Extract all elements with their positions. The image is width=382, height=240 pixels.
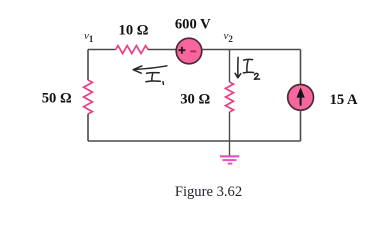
wire: current source to bottom-right corner — [300, 110, 302, 141]
svg-text:600 V: 600 V — [175, 17, 211, 33]
current source 15 A (circle with up arrow) — [288, 85, 314, 111]
svg-text:10 Ω: 10 Ω — [119, 23, 149, 39]
svg-text:v1: v1 — [84, 30, 94, 44]
svg-text:15 A: 15 A — [330, 92, 358, 108]
annotation: handwritten label I2 — [243, 59, 259, 79]
svg-text:50 Ω: 50 Ω — [42, 90, 72, 106]
voltage source 600 V (circle with plus-minus) — [176, 38, 202, 64]
resistor 10 ohm (horizontal zigzag) — [116, 46, 148, 54]
wire: 50-ohm resistor to bottom-left corner — [87, 114, 89, 141]
ground — [220, 156, 239, 163]
resistor 50 ohm (vertical zigzag) — [84, 80, 93, 114]
resistor 30 ohm (vertical zigzag) — [226, 82, 234, 112]
wire: 30-ohm resistor to bottom wire junction — [229, 112, 231, 141]
wire: voltage source to top-right corner (through node v2) — [201, 49, 300, 51]
svg-text:30 Ω: 30 Ω — [180, 91, 210, 107]
wire: bottom horizontal from left corner to right corner — [88, 140, 301, 142]
wire: top-left horizontal segment from node v1 corner to 10-ohm resistor — [88, 49, 116, 51]
annotation: handwritten arrow for current I1 (pointing left) — [133, 66, 167, 73]
annotation: handwritten label I1 — [146, 73, 164, 85]
wire: 10-ohm resistor to voltage source — [148, 49, 177, 51]
wire: right vertical, top corner down to current source — [300, 50, 302, 85]
wire: ground stem below bottom wire — [229, 141, 231, 156]
annotation: handwritten arrow for current I2 (pointing down) — [235, 57, 241, 77]
wire: left vertical, top corner down to 50-ohm resistor — [87, 50, 89, 81]
svg-text:v2: v2 — [224, 30, 234, 44]
wire: middle vertical from node v2 down to 30-ohm resistor — [229, 50, 231, 83]
svg-text:Figure 3.62: Figure 3.62 — [175, 184, 242, 200]
